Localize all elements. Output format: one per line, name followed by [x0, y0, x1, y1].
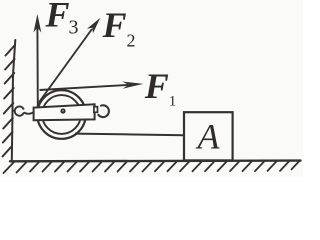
- wall: [12, 40, 16, 161]
- left hook link: [24, 112, 34, 114]
- force F1 shaft: [40, 85, 129, 90]
- rope to block: [75, 134, 184, 136]
- wall hatch 5: [4, 103, 14, 114]
- wall hatch 7: [3, 132, 13, 143]
- ground hatching: [4, 161, 300, 173]
- right hook nub: [94, 107, 98, 113]
- block A: [184, 112, 233, 160]
- svg-text:1: 1: [169, 93, 177, 109]
- svg-text:2: 2: [127, 31, 136, 51]
- wall hatch 8: [3, 146, 13, 157]
- wheel inner circle: [42, 95, 81, 134]
- force F2 shaft: [39, 29, 92, 103]
- svg-text:F: F: [102, 5, 127, 45]
- wall hatch 1: [6, 45, 16, 56]
- svg-text:3: 3: [69, 17, 79, 39]
- axle bar: [34, 104, 95, 120]
- wall hatch 6: [3, 118, 13, 129]
- svg-text:F: F: [144, 66, 169, 106]
- force F2 arrowhead: [87, 18, 100, 33]
- wall hatch 3: [5, 73, 15, 84]
- axle center dot: [60, 108, 65, 113]
- ground: [10, 159, 301, 162]
- svg-text:A: A: [196, 116, 221, 156]
- wall hatch 2: [5, 59, 15, 70]
- wheel outer circle: [37, 90, 86, 139]
- left hook wall stub: [12, 110, 15, 112]
- wall hatch 4: [4, 88, 14, 99]
- svg-text:F: F: [45, 0, 70, 35]
- force F1 arrowhead: [122, 82, 143, 89]
- left hook eye: [15, 106, 24, 115]
- force F3 arrowhead: [34, 14, 42, 33]
- force F3 shaft: [36, 26, 38, 107]
- right hook: [98, 105, 109, 117]
